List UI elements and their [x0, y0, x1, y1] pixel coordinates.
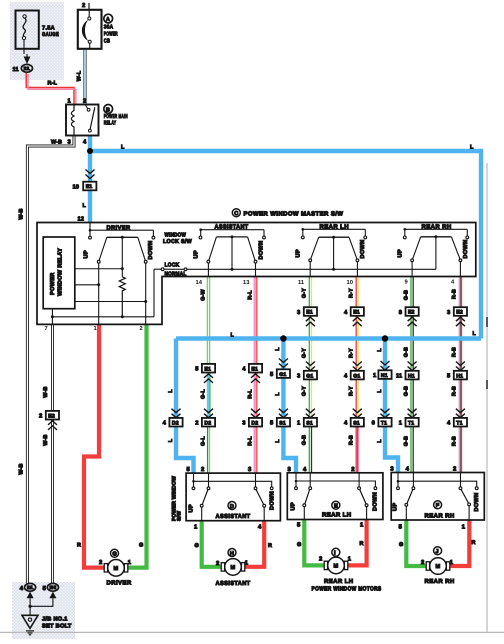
junction connector 5 H1 — [447, 362, 467, 380]
assistant UP line to pin14 — [207, 263, 209, 277]
assistant common to normal bus — [231, 237, 234, 271]
junction node on L above G1 column — [280, 335, 286, 341]
svg-text:REAR LH: REAR LH — [322, 511, 351, 518]
junction connector 5 G1 — [270, 359, 290, 379]
driver UP line to pin1 — [98, 263, 100, 324]
svg-text:2: 2 — [453, 466, 456, 473]
svg-text:L: L — [121, 145, 125, 151]
svg-text:13: 13 — [243, 279, 250, 286]
assistant switch trapezoid — [194, 235, 265, 263]
connector I1 pin4 ground — [20, 583, 36, 598]
svg-text:R-B: R-B — [452, 289, 458, 299]
svg-text:I1: I1 — [27, 585, 34, 590]
junction node on L at relay output — [87, 148, 93, 154]
svg-text:10: 10 — [347, 279, 353, 286]
wire L branch to rear RH switch pin3 — [385, 339, 398, 474]
driver DOWN line to pin2 — [145, 263, 147, 324]
svg-text:2: 2 — [99, 559, 102, 566]
wire R-Y master pin10 down to S1 — [356, 277, 358, 418]
svg-text:C: C — [234, 211, 238, 217]
svg-text:G-B: G-B — [403, 386, 409, 396]
svg-text:POWER WINDOW MASTER S/W: POWER WINDOW MASTER S/W — [244, 211, 344, 218]
svg-text:L: L — [377, 389, 383, 393]
svg-text:UP: UP — [194, 250, 200, 258]
driver switch trapezoid — [84, 236, 155, 263]
svg-text:7: 7 — [45, 326, 48, 332]
svg-text:E2: E2 — [456, 310, 463, 316]
wire R-B master pin4 to rear RH switch pin2 — [459, 277, 461, 474]
svg-text:G1: G1 — [306, 373, 313, 379]
junction node on L above N1 column — [382, 335, 388, 341]
wire stub top of circuit breaker — [88, 3, 90, 10]
svg-text:G: G — [195, 543, 199, 549]
svg-text:WINDOW RELAY: WINDOW RELAY — [58, 248, 64, 296]
page border right — [486, 163, 488, 633]
junction connector 2 E2 — [39, 411, 59, 430]
svg-text:7.5A: 7.5A — [42, 26, 55, 32]
svg-text:G-B: G-B — [403, 290, 409, 300]
svg-text:G: G — [139, 543, 143, 549]
hatched other-system region top-left — [10, 2, 64, 80]
svg-text:L: L — [168, 389, 174, 393]
svg-text:G1: G1 — [353, 373, 360, 379]
svg-text:POWER MAIN: POWER MAIN — [104, 114, 128, 120]
wire G-B master pin9 to rear RH switch pin4 — [411, 277, 413, 474]
rear RH switch trapezoid — [398, 235, 470, 261]
junction connector 3 E1 — [297, 307, 317, 326]
svg-text:L: L — [470, 145, 474, 151]
junction connector 6 T1 — [372, 409, 392, 427]
svg-text:L: L — [377, 348, 383, 352]
svg-text:2: 2 — [216, 560, 219, 567]
svg-text:GAUGE: GAUGE — [42, 32, 59, 38]
svg-text:G-Y: G-Y — [302, 348, 308, 358]
wire W-L circuit breaker to relay pin2 — [83, 49, 86, 105]
junction connector 5 S1 — [270, 409, 290, 427]
svg-text:CB: CB — [104, 38, 111, 44]
svg-text:R-B: R-B — [452, 436, 458, 446]
motor J REAR RH — [421, 547, 455, 585]
svg-text:L: L — [275, 347, 281, 351]
junction connector 3 E2 — [447, 307, 467, 326]
svg-text:E1: E1 — [353, 310, 360, 316]
svg-text:G-B: G-B — [403, 347, 409, 357]
svg-text:G1: G1 — [279, 372, 286, 378]
svg-text:M: M — [114, 566, 119, 572]
svg-text:T1: T1 — [408, 420, 414, 426]
svg-text:DOWN: DOWN — [463, 240, 469, 259]
svg-text:R-Y: R-Y — [349, 386, 355, 396]
svg-text:11: 11 — [396, 374, 403, 380]
svg-text:DOWN: DOWN — [270, 491, 276, 510]
svg-text:R-B: R-B — [452, 347, 458, 357]
ground wires join — [29, 598, 53, 615]
junction connector 8 E2 — [399, 307, 419, 326]
wire L second horizontal run — [176, 336, 481, 340]
svg-text:L: L — [231, 332, 235, 338]
wire G driver: master pin2 to driver motor — [127, 324, 147, 567]
wire R rear RH switch to motor — [449, 520, 469, 566]
junction connector 1 T1 — [399, 409, 419, 427]
rear RH bus — [403, 228, 468, 239]
junction connector 3 G1 — [297, 362, 317, 380]
wire G-W master pin14 down — [207, 277, 210, 365]
junction connector 10 E1 with arrows — [73, 170, 97, 191]
svg-text:UP: UP — [84, 250, 90, 258]
wire R driver: master pin1 to driver motor — [84, 324, 105, 567]
svg-text:ASSISTANT: ASSISTANT — [216, 513, 251, 520]
wire G-L junction E1 to D2 assistant — [208, 373, 210, 418]
motor H ASSISTANT — [216, 549, 251, 588]
svg-text:2: 2 — [140, 325, 143, 332]
svg-text:LOCK: LOCK — [165, 263, 180, 269]
power window master switch C title — [232, 209, 343, 218]
svg-text:M: M — [436, 564, 441, 570]
junction connector 4 G1 — [344, 362, 364, 380]
wire R assistant switch to motor — [244, 521, 264, 567]
svg-text:E1: E1 — [306, 310, 313, 316]
power window switch F REAR RH — [390, 466, 484, 531]
rear RH DOWN line to pin4 — [459, 262, 461, 277]
junction connector 1 S1 — [297, 409, 317, 427]
svg-text:H: H — [230, 551, 234, 557]
normal bus line — [187, 268, 436, 270]
svg-text:R: R — [472, 540, 476, 546]
svg-text:UP: UP — [393, 503, 399, 511]
svg-text:I1: I1 — [24, 66, 31, 71]
svg-text:W-B: W-B — [43, 434, 49, 445]
motor I REAR LH — [312, 548, 382, 592]
junction connector 5 E1 — [195, 364, 215, 383]
power window switch E REAR LH — [287, 466, 383, 529]
border tick marks — [486, 317, 488, 327]
svg-text:NORMAL: NORMAL — [165, 271, 187, 277]
svg-text:2: 2 — [201, 466, 204, 473]
svg-text:10: 10 — [73, 184, 79, 191]
svg-text:REAR RH: REAR RH — [425, 513, 455, 520]
svg-text:UP: UP — [291, 502, 297, 510]
junction connector 4 T1 — [447, 409, 467, 427]
svg-text:R-B: R-B — [452, 386, 458, 396]
svg-text:G-Y: G-Y — [302, 288, 308, 298]
svg-text:REAR RH: REAR RH — [425, 578, 455, 585]
svg-text:G: G — [112, 552, 117, 558]
svg-text:POWER WINDOW MOTORS: POWER WINDOW MOTORS — [312, 585, 382, 592]
ground symbol J/B NO.1 SET BOLT — [22, 615, 72, 635]
svg-text:2: 2 — [195, 420, 198, 427]
svg-text:E2: E2 — [48, 413, 55, 419]
connector I1 (pin 11) — [13, 64, 33, 72]
power window relay box — [43, 237, 75, 309]
svg-text:G: G — [297, 542, 301, 548]
junction connector 11 H1 — [396, 362, 419, 380]
relay output to DOWN line — [75, 300, 147, 303]
svg-text:IH: IH — [50, 585, 57, 590]
svg-text:ASSISTANT: ASSISTANT — [216, 580, 251, 587]
driver common line with resistor — [119, 237, 125, 316]
svg-text:J: J — [436, 549, 439, 555]
svg-text:L: L — [168, 438, 174, 442]
relay output to driver common — [75, 267, 124, 270]
svg-text:R: R — [268, 543, 272, 549]
wire G rear RH switch to motor — [406, 520, 427, 566]
wire G assistant switch to motor — [202, 521, 222, 567]
master bottom pin labels — [45, 279, 456, 332]
svg-text:G-W: G-W — [200, 288, 206, 300]
svg-text:DOWN: DOWN — [474, 493, 480, 512]
svg-text:30A: 30A — [104, 24, 114, 30]
circuit breaker A 30A POWER CB — [78, 10, 118, 49]
junction connector 2 D2 — [195, 409, 215, 427]
svg-text:W-B: W-B — [43, 386, 49, 397]
assistant DOWN line to pin13 — [255, 263, 257, 277]
window lock switch — [154, 233, 192, 278]
svg-text:R-L: R-L — [247, 290, 253, 300]
svg-text:DOWN: DOWN — [259, 241, 265, 260]
svg-text:W-B: W-B — [51, 140, 62, 146]
svg-text:2: 2 — [82, 2, 85, 9]
wire L branch to assistant switch pin5 — [176, 339, 194, 474]
motor G DRIVER — [99, 549, 132, 586]
svg-text:2: 2 — [421, 559, 424, 566]
svg-text:R: R — [360, 541, 364, 547]
svg-text:T1: T1 — [456, 420, 462, 426]
rear LH UP line to pin11 — [309, 262, 311, 277]
junction connector 4 E1 rear — [344, 307, 364, 326]
svg-text:E1: E1 — [251, 366, 258, 372]
master switch box outline — [37, 223, 476, 325]
svg-text:D2: D2 — [251, 420, 258, 426]
junction connector 3 D2 — [242, 409, 262, 427]
wire L relay pin4 to main horizontal run and right vertical — [90, 136, 481, 339]
svg-text:T1: T1 — [381, 420, 387, 426]
svg-text:N1: N1 — [381, 373, 388, 379]
svg-text:R-L: R-L — [48, 81, 58, 87]
svg-text:G-L: G-L — [200, 389, 206, 399]
connector IH pin5 ground — [43, 583, 59, 598]
svg-text:POWER: POWER — [50, 272, 56, 295]
svg-text:UP: UP — [296, 249, 302, 257]
wire G-Y master pin11 down to S1 — [309, 277, 311, 418]
wire W-B relay pin3 to left ground run — [27, 136, 74, 584]
svg-text:W-B: W-B — [19, 208, 25, 219]
svg-text:WINDOW: WINDOW — [165, 233, 187, 239]
rear LH common to normal bus — [332, 237, 335, 271]
svg-text:DOWN: DOWN — [148, 241, 154, 260]
svg-text:G-B: G-B — [403, 436, 409, 446]
svg-text:W-B: W-B — [19, 463, 25, 474]
svg-text:R-L: R-L — [247, 436, 253, 446]
svg-text:L: L — [275, 439, 281, 443]
junction connector 4 S1 — [344, 409, 364, 427]
svg-text:R-L: R-L — [247, 389, 253, 399]
svg-text:DOWN: DOWN — [373, 492, 379, 511]
svg-text:S1: S1 — [306, 420, 313, 426]
svg-text:RELAY: RELAY — [104, 120, 117, 126]
svg-text:UP: UP — [398, 249, 404, 257]
svg-text:L: L — [473, 331, 477, 337]
junction connector 4 D2 — [163, 409, 183, 427]
wire L branch to rear LH switch pin3 — [283, 339, 296, 474]
wire G-B junction S1 to rear LH switch pin4 — [309, 427, 311, 474]
svg-text:2: 2 — [39, 413, 42, 420]
svg-text:L: L — [377, 439, 383, 443]
junction connector 1 N1 — [373, 361, 392, 379]
svg-text:POWER: POWER — [104, 31, 118, 37]
wire G-L junction D2 to assistant switch pin2 — [208, 427, 210, 474]
svg-text:S/W: S/W — [177, 511, 183, 521]
relay B POWER MAIN RELAY — [66, 105, 128, 136]
wire R-L fuse to relay pin1 — [26, 72, 74, 105]
wire G rear LH switch to motor — [304, 520, 324, 566]
driver bus — [89, 223, 155, 240]
svg-text:DOWN: DOWN — [360, 240, 366, 259]
svg-text:H1: H1 — [408, 373, 415, 379]
svg-text:11: 11 — [13, 67, 20, 73]
svg-text:S1: S1 — [279, 420, 286, 426]
assistant bus — [199, 228, 265, 239]
svg-text:L: L — [275, 392, 281, 396]
rear RH UP line to pin9 — [411, 262, 413, 277]
svg-text:REAR LH: REAR LH — [324, 578, 353, 585]
svg-text:G-B: G-B — [302, 435, 308, 445]
wire R-B junction S1 to rear LH switch pin2 — [356, 427, 358, 474]
rear LH DOWN line to pin10 — [356, 262, 358, 277]
svg-text:14: 14 — [196, 280, 203, 286]
svg-text:G-Y: G-Y — [302, 386, 308, 396]
svg-text:G: G — [399, 542, 403, 548]
rear LH switch trapezoid — [296, 236, 367, 262]
svg-text:F: F — [436, 503, 440, 509]
page border bottom — [0, 631, 504, 633]
svg-text:S1: S1 — [353, 420, 360, 426]
svg-text:M: M — [334, 564, 339, 570]
svg-text:2: 2 — [351, 466, 354, 473]
svg-text:R-Y: R-Y — [349, 348, 355, 358]
ground bus inside master switch — [51, 269, 154, 324]
wire W-B master switch pin7 to ground — [51, 324, 54, 583]
svg-text:D2: D2 — [172, 420, 179, 426]
svg-text:LOCK S/W: LOCK S/W — [163, 238, 192, 245]
svg-text:M: M — [231, 565, 236, 571]
wire R rear LH switch to motor — [346, 520, 367, 566]
svg-text:A: A — [106, 17, 110, 23]
svg-text:2: 2 — [319, 556, 322, 563]
relay output to UP line — [75, 283, 100, 286]
svg-text:SET BOLT: SET BOLT — [42, 624, 72, 630]
svg-text:D2: D2 — [204, 420, 211, 426]
svg-text:E2: E2 — [408, 310, 415, 316]
svg-text:H1: H1 — [456, 373, 463, 379]
svg-text:E1: E1 — [86, 184, 93, 190]
rear RH common to normal bus — [435, 237, 437, 269]
svg-text:W-L: W-L — [77, 70, 83, 81]
svg-text:UP: UP — [189, 504, 195, 512]
power window switch D ASSISTANT — [171, 466, 280, 530]
hatched ground region bottom-left — [12, 582, 75, 639]
svg-text:B: B — [106, 107, 110, 113]
svg-text:L: L — [83, 203, 87, 209]
svg-text:11: 11 — [298, 280, 305, 286]
svg-text:DRIVER: DRIVER — [107, 579, 132, 586]
svg-text:E1: E1 — [204, 366, 211, 372]
svg-text:R-Y: R-Y — [349, 288, 355, 298]
fuse 7.5A GAUGE — [16, 11, 60, 55]
svg-text:J/B NO.1: J/B NO.1 — [42, 616, 68, 623]
svg-text:E: E — [334, 504, 338, 510]
connector arrow into I1 — [24, 57, 31, 65]
svg-text:R-B: R-B — [349, 435, 355, 445]
svg-text:D: D — [230, 504, 234, 510]
svg-text:R: R — [77, 543, 81, 549]
rear LH bus — [301, 228, 366, 239]
wire L pin 12 feed to master switch — [88, 151, 92, 223]
svg-text:I: I — [334, 551, 336, 557]
wire R-L master pin13 to assistant switch pin3 — [254, 277, 257, 474]
svg-text:G-L: G-L — [200, 436, 206, 446]
junction connector 4 E1 assistant — [242, 364, 262, 383]
